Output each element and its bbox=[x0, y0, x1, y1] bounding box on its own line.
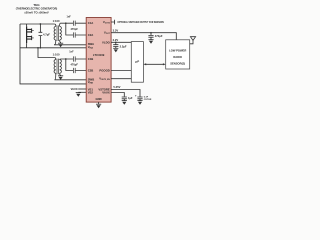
wire T2 secondary to C1B bbox=[61, 58, 87, 60]
capacitor 1uF VAUX bbox=[122, 96, 133, 101]
svg-text:±20mV TO ±500mV: ±20mV TO ±500mV bbox=[24, 10, 49, 14]
svg-text:RADIO: RADIO bbox=[173, 55, 182, 59]
transformer T2 1:100 bbox=[53, 52, 62, 79]
capacitor 2.2uF bbox=[113, 42, 127, 48]
ground T1 secondary bbox=[58, 43, 63, 47]
svg-text:LTC3109: LTC3109 bbox=[93, 53, 105, 57]
svg-text:VAUX: VAUX bbox=[71, 87, 78, 91]
svg-text:C2B: C2B bbox=[88, 69, 94, 73]
svg-text:1:100: 1:100 bbox=[53, 19, 60, 23]
capacitor 470uF bbox=[148, 33, 162, 40]
wire left vertical bbox=[20, 24, 86, 84]
svg-text:3.3V: 3.3V bbox=[113, 28, 119, 32]
svg-text:VLDO: VLDO bbox=[102, 40, 111, 44]
wire uP to sensors arrow bbox=[143, 63, 165, 65]
ground 470uF bbox=[148, 40, 153, 44]
capacitor C1B coupling bbox=[73, 56, 75, 61]
svg-text:OPTIONAL SWITCHED OUTPUT FOR S: OPTIONAL SWITCHED OUTPUT FOR SENSORS bbox=[117, 20, 164, 24]
wire VS1 bbox=[78, 88, 86, 90]
wire VS2 to ground bbox=[78, 91, 86, 93]
generator TEG element bbox=[27, 24, 34, 48]
IC U1 LTC3109 bbox=[86, 18, 111, 103]
svg-text:LOW POWER: LOW POWER bbox=[169, 49, 186, 53]
capacitor C1A coupling bbox=[73, 21, 75, 26]
svg-text:1:100: 1:100 bbox=[53, 52, 60, 56]
svg-text:PGOOD: PGOOD bbox=[99, 69, 109, 73]
capacitor C2B coupling bbox=[73, 68, 75, 73]
node junction C1B bbox=[65, 58, 67, 60]
svg-text:+: + bbox=[135, 93, 137, 97]
wire GND pin bbox=[98, 102, 100, 104]
svg-text:1µF: 1µF bbox=[128, 96, 133, 100]
wire PGOOD bbox=[111, 70, 131, 72]
svg-text:(THERMOELECTRIC GENERATOR): (THERMOELECTRIC GENERATOR) bbox=[16, 7, 58, 11]
wire to T2 primary bbox=[38, 48, 54, 58]
wire SWB bbox=[55, 79, 87, 81]
svg-text:µP: µP bbox=[134, 60, 139, 64]
svg-text:C1B: C1B bbox=[88, 57, 94, 61]
svg-text:CSTOR: CSTOR bbox=[144, 99, 152, 101]
node junction 470uF bbox=[150, 32, 152, 34]
wire 2.2V rail bbox=[111, 41, 131, 43]
wire VOUT2 annotation bbox=[111, 20, 115, 25]
antenna bbox=[190, 37, 196, 44]
wire SWA bbox=[54, 44, 86, 46]
ground IC bbox=[96, 104, 101, 108]
svg-text:VAUX: VAUX bbox=[102, 91, 110, 95]
svg-text:1nF: 1nF bbox=[67, 16, 72, 19]
wire VINA net (TEG bottom) bbox=[20, 47, 86, 49]
block low power radio sensors bbox=[166, 40, 190, 69]
wire top rail bbox=[20, 23, 54, 25]
ground 0.1F bbox=[137, 101, 142, 105]
svg-text:5.25V: 5.25V bbox=[113, 85, 120, 89]
wire VOUT2_EN bbox=[111, 78, 131, 80]
wire branch to C2A bbox=[66, 23, 86, 35]
svg-text:GND: GND bbox=[95, 97, 101, 101]
node junction VINA/T2 branch bbox=[37, 47, 39, 49]
svg-text:C2A: C2A bbox=[88, 33, 94, 37]
svg-text:470pF: 470pF bbox=[70, 27, 78, 31]
wire T1 secondary to C1A bbox=[61, 22, 87, 24]
ground T2 secondary bbox=[58, 76, 63, 80]
ground 1uF bbox=[122, 101, 127, 105]
svg-text:1nF: 1nF bbox=[69, 50, 74, 53]
wire branch to C2B bbox=[66, 59, 86, 71]
capacitor C2A coupling bbox=[73, 32, 75, 37]
svg-text:2.2V: 2.2V bbox=[113, 38, 119, 42]
wire VAUX rail bbox=[111, 93, 124, 97]
node junction 2.2uF bbox=[115, 41, 117, 43]
capacitor 4.7uF input bbox=[39, 23, 51, 49]
svg-text:470µF: 470µF bbox=[155, 34, 163, 38]
svg-text:VS2: VS2 bbox=[88, 91, 94, 95]
capacitor 0.1F storage bbox=[135, 93, 152, 101]
ground VS2 bbox=[76, 93, 81, 97]
svg-text:470pF: 470pF bbox=[70, 62, 78, 66]
wire 3.3V rail bbox=[111, 33, 176, 40]
node TEG title bbox=[16, 3, 58, 14]
svg-text:4.7µF: 4.7µF bbox=[43, 32, 50, 36]
svg-text:2.2µF: 2.2µF bbox=[120, 44, 127, 48]
transformer T1 1:100 bbox=[53, 19, 62, 45]
svg-text:TEG: TEG bbox=[33, 3, 40, 7]
node junction C1A bbox=[65, 22, 67, 24]
svg-text:SENSOR(S): SENSOR(S) bbox=[170, 62, 185, 66]
svg-text:C1A: C1A bbox=[88, 21, 94, 25]
wire VSTORE rail bbox=[111, 90, 140, 97]
block uP bbox=[131, 42, 143, 83]
ground 2.2uF bbox=[113, 48, 118, 52]
